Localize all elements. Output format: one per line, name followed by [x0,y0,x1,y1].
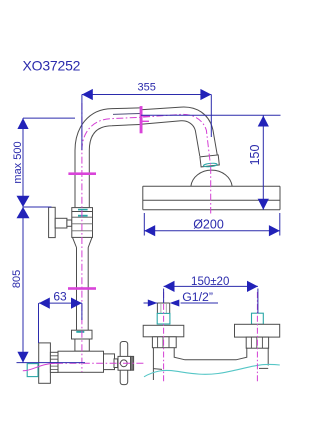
slider taper [73,237,93,247]
collar seal teal [76,331,84,333]
wall flange [39,343,51,383]
lower tube [77,248,89,331]
arrowheads [17,89,280,363]
valve neck [75,339,89,351]
left thread teal box [157,313,170,324]
150 top arrow [258,116,269,127]
riser pipe centerline [81,103,83,372]
svg-text:150: 150 [248,145,262,166]
svg-text:150±20: 150±20 [191,276,229,288]
150+-20 left arrow [164,281,175,292]
O200 left arrow [144,225,155,236]
handle cross arm [120,342,128,385]
riser tick mark lower [68,287,96,290]
dim 355 line [82,94,211,96]
G1/2 right arrow [170,300,180,307]
shared hourglass arrows [17,196,30,207]
spout centerline [82,114,211,213]
dim 355 ext lines [81,95,83,151]
valve body front outline [153,348,268,380]
svg-text:Ø200: Ø200 [193,218,224,232]
wall bracket plate [49,207,56,237]
right union nut [246,337,268,348]
slider seals (teal) [78,209,88,211]
355 right arrow [200,89,211,100]
805 bottom arrow [17,352,28,363]
handle spindle [114,359,118,368]
collar seal (teal) [203,163,217,168]
svg-text:XO37252: XO37252 [23,57,81,73]
dim 805 line [22,207,24,363]
dim O200 [144,230,279,232]
riser tick mark upper [68,172,96,175]
150 bottom arrow [258,199,269,210]
dim max500 line [22,118,24,207]
elbow and top pipe lower outline [89,125,140,151]
max500 top arrow [17,118,28,129]
left escutcheon [143,325,184,337]
slider block [72,208,93,238]
right connector centerline [256,292,258,382]
bracket arm [55,218,67,228]
dim 63 [39,302,82,304]
O200 right arrow [269,225,280,236]
shower head dome [191,170,232,186]
top pipe inner highlight line [113,113,140,116]
355 left arrow [82,89,93,100]
knurled nut [50,352,58,372]
63 left arrow [39,298,50,309]
riser pipe outline [75,107,217,207]
left connector centerline [163,292,165,382]
tube collar [72,330,93,339]
handle end cap [131,356,134,370]
dim 150 (head height) [262,115,264,209]
right thread teal box [252,313,264,324]
G1/2 leader [181,302,218,304]
svg-text:G1/2”: G1/2” [182,290,213,304]
valve centerline [23,363,58,371]
150+-20 right arrow [247,281,258,292]
G1/2 left arrow [148,300,158,307]
svg-text:355: 355 [138,82,156,94]
svg-text:805: 805 [11,270,23,288]
dim 150+-20 [164,285,258,287]
elbow and top pipe outer outline [75,108,140,151]
valve body [58,351,104,372]
spout flange tick mark [140,106,150,133]
break wave line (teal) [144,364,280,376]
left union nut [152,337,176,348]
handle hub [118,356,131,370]
valve body step [104,354,115,370]
left thread stub [157,303,169,313]
shower head plate [143,186,280,210]
svg-text:max 500: max 500 [12,141,24,183]
handle screw circle [120,360,127,367]
svg-text:63: 63 [53,289,67,303]
63 right arrow [71,298,82,309]
shower head collar [200,155,219,167]
right escutcheon [235,324,280,337]
supply fitting (teal) [27,364,38,377]
